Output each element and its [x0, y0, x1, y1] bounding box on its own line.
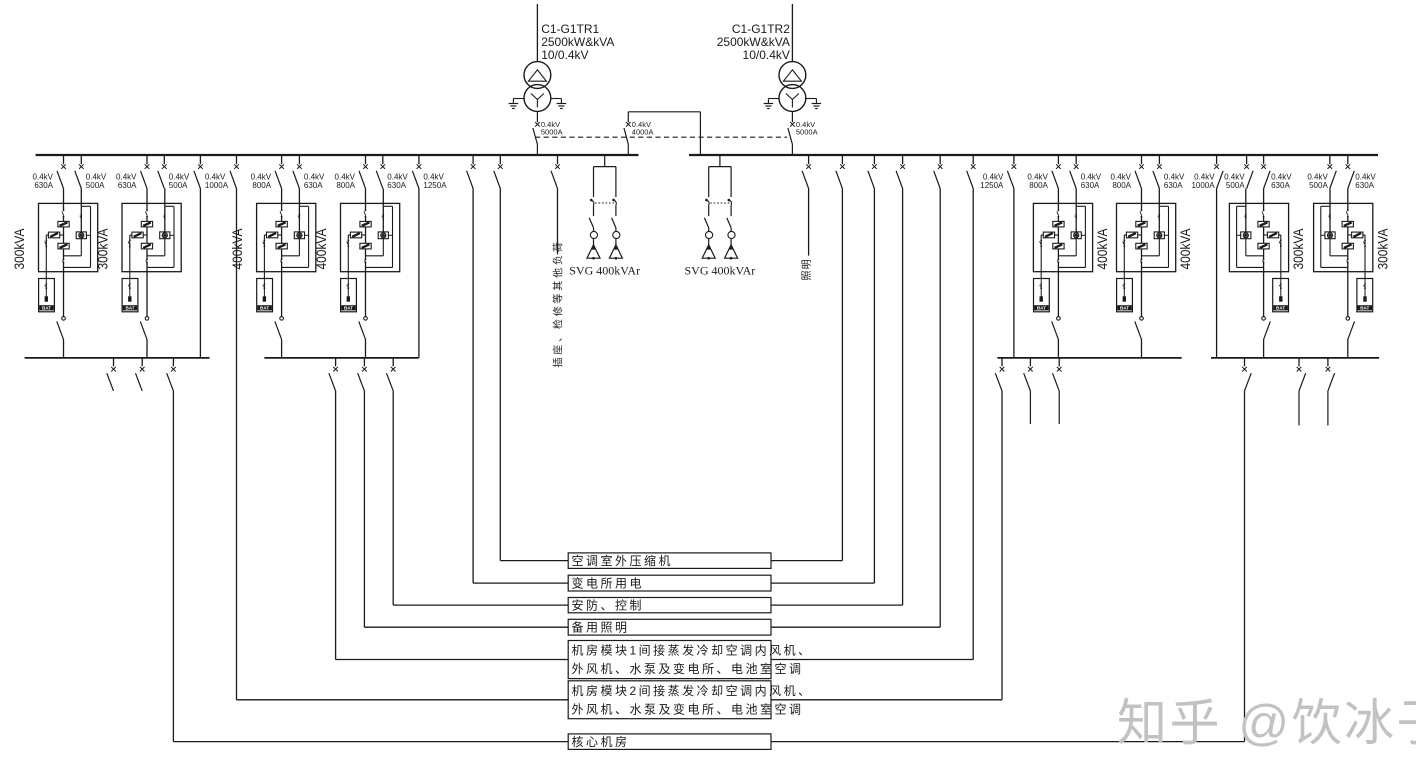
svg-text:800A: 800A: [1029, 181, 1048, 190]
svg-text:SVG 400kVAr: SVG 400kVAr: [569, 264, 640, 278]
svg-text:630A: 630A: [387, 181, 406, 190]
svg-text:机房模块2间接蒸发冷却空调内风机、: 机房模块2间接蒸发冷却空调内风机、: [572, 683, 813, 698]
svg-text:630A: 630A: [1081, 181, 1100, 190]
svg-text:BAT: BAT: [1037, 306, 1046, 311]
svg-text:10/0.4kV: 10/0.4kV: [541, 48, 588, 62]
svg-text:BAT: BAT: [42, 306, 51, 311]
svg-text:5000A: 5000A: [796, 127, 818, 136]
svg-text:BAT: BAT: [1360, 306, 1369, 311]
svg-text:C1-G1TR2: C1-G1TR2: [732, 22, 790, 36]
svg-text:500A: 500A: [169, 181, 188, 190]
svg-text:核心机房: 核心机房: [572, 734, 630, 749]
svg-text:5000A: 5000A: [541, 127, 563, 136]
svg-text:空调室外压缩机: 空调室外压缩机: [572, 553, 674, 568]
svg-text:BAT: BAT: [1120, 306, 1129, 311]
svg-text:变电所用电: 变电所用电: [572, 575, 645, 590]
svg-text:BAT: BAT: [1276, 306, 1285, 311]
svg-text:备用照明: 备用照明: [572, 621, 630, 635]
svg-text:外风机、水泵及变电所、电池室空调: 外风机、水泵及变电所、电池室空调: [572, 701, 804, 716]
svg-text:SVG 400kVAr: SVG 400kVAr: [685, 264, 756, 278]
svg-text:630A: 630A: [1355, 181, 1374, 190]
svg-text:照明: 照明: [801, 258, 813, 280]
svg-text:知乎 @饮冰子: 知乎 @饮冰子: [1117, 695, 1416, 751]
svg-text:630A: 630A: [304, 181, 323, 190]
svg-text:2500kW&kVA: 2500kW&kVA: [717, 35, 790, 49]
svg-text:4000A: 4000A: [632, 127, 654, 136]
svg-text:外风机、水泵及变电所、电池室空调: 外风机、水泵及变电所、电池室空调: [572, 661, 804, 676]
svg-text:800A: 800A: [336, 181, 355, 190]
svg-text:630A: 630A: [1164, 181, 1183, 190]
svg-text:300kVA: 300kVA: [1290, 228, 1306, 270]
svg-text:800A: 800A: [1112, 181, 1131, 190]
svg-text:300kVA: 300kVA: [95, 228, 111, 270]
svg-text:500A: 500A: [1309, 181, 1328, 190]
svg-text:300kVA: 300kVA: [11, 228, 27, 270]
svg-text:400kVA: 400kVA: [1094, 228, 1110, 270]
svg-text:BAT: BAT: [260, 306, 269, 311]
svg-text:C1-G1TR1: C1-G1TR1: [541, 22, 599, 36]
svg-text:630A: 630A: [34, 181, 53, 190]
svg-text:BAT: BAT: [344, 306, 353, 311]
svg-text:400kVA: 400kVA: [313, 228, 329, 270]
svg-text:BAT: BAT: [125, 306, 134, 311]
svg-text:2500kW&kVA: 2500kW&kVA: [541, 35, 614, 49]
svg-text:630A: 630A: [1271, 181, 1290, 190]
svg-text:630A: 630A: [118, 181, 137, 190]
svg-text:500A: 500A: [1226, 181, 1245, 190]
svg-text:400kVA: 400kVA: [1177, 228, 1193, 270]
svg-text:1250A: 1250A: [980, 181, 1004, 190]
svg-text:1000A: 1000A: [1191, 181, 1215, 190]
svg-text:1250A: 1250A: [423, 181, 447, 190]
svg-text:10/0.4kV: 10/0.4kV: [743, 48, 790, 62]
svg-text:1000A: 1000A: [205, 181, 229, 190]
svg-text:机房模块1间接蒸发冷却空调内风机、: 机房模块1间接蒸发冷却空调内风机、: [572, 643, 813, 658]
svg-text:安防、控制: 安防、控制: [572, 598, 645, 613]
svg-text:800A: 800A: [252, 181, 271, 190]
svg-text:300kVA: 300kVA: [1374, 228, 1390, 270]
svg-text:500A: 500A: [86, 181, 105, 190]
svg-text:插座、检修等其他负荷: 插座、检修等其他负荷: [551, 240, 564, 368]
